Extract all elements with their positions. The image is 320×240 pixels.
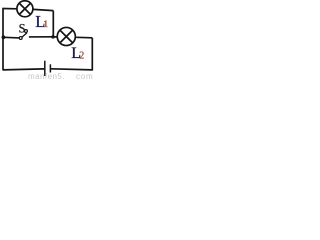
svg-text:manfen5.: manfen5.	[28, 72, 65, 80]
svg-text:com: com	[76, 72, 94, 80]
svg-text:S: S	[19, 21, 26, 35]
svg-text:1: 1	[43, 19, 48, 30]
svg-text:2: 2	[79, 51, 84, 62]
